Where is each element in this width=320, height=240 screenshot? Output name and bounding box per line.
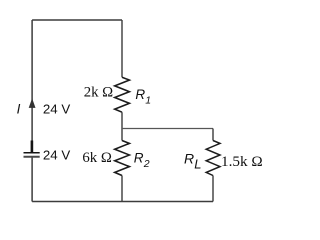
wire: middle horizontal to load branch bbox=[122, 128, 213, 130]
battery VS bold stub bbox=[31, 141, 34, 153]
resistor R1 (2k ohm) zigzag bbox=[115, 77, 130, 112]
svg-text:1.5k Ω: 1.5k Ω bbox=[221, 153, 263, 170]
wire: R2 bottom stub bbox=[121, 176, 123, 202]
wire: between R1 and R2 bbox=[121, 112, 123, 140]
svg-text:R: R bbox=[135, 87, 145, 102]
wire: left vertical lower (below battery) bbox=[31, 157, 33, 202]
svg-text:R: R bbox=[184, 151, 194, 167]
svg-text:6k Ω: 6k Ω bbox=[82, 150, 112, 166]
svg-text:2k Ω: 2k Ω bbox=[84, 85, 114, 101]
wire: RL top stub bbox=[212, 129, 214, 141]
svg-text:L: L bbox=[194, 156, 201, 171]
svg-text:1: 1 bbox=[145, 95, 151, 107]
current arrow I on left branch bbox=[29, 98, 36, 108]
wire: RL bottom stub bbox=[212, 176, 214, 202]
svg-text:I: I bbox=[17, 101, 21, 116]
wire: bottom horizontal bbox=[32, 201, 213, 203]
resistor R2 (6k ohm) zigzag bbox=[115, 141, 130, 176]
battery bottom plate bbox=[24, 156, 40, 158]
svg-text:2: 2 bbox=[143, 158, 150, 170]
wire: left vertical upper (source branch) bbox=[31, 20, 33, 152]
battery top plate bbox=[24, 152, 40, 154]
resistor RL (1.5k ohm) zigzag bbox=[206, 141, 220, 176]
svg-text:R: R bbox=[134, 150, 144, 165]
wire: top horizontal from left branch to R1 column bbox=[32, 19, 122, 21]
wire: R1 top stub bbox=[121, 20, 123, 77]
svg-text:24 V: 24 V bbox=[43, 101, 70, 116]
svg-text:24 V: 24 V bbox=[43, 148, 70, 163]
